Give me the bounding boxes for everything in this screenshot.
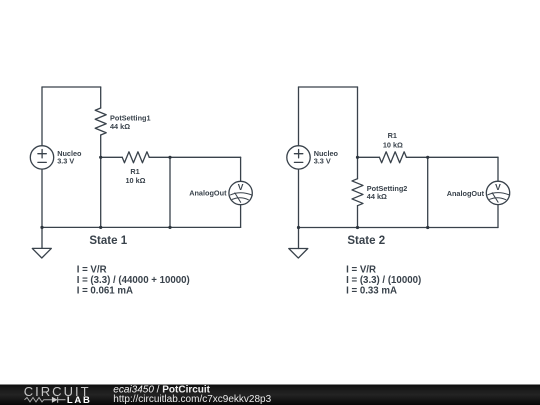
wire: voltmeter bottom lead (State 1) <box>240 205 242 228</box>
node: State2 ground junction <box>297 226 300 229</box>
wire: State2 left branch lower <box>298 169 300 227</box>
node: State1 bottom mid junction <box>99 226 102 229</box>
wire: State1 vertical return at x=170 <box>169 157 171 227</box>
voltmeter AnalogOut (State 1) <box>229 181 252 204</box>
wire: State1 left branch upper <box>41 87 43 146</box>
svg-text:http://circuitlab.com/c7xc9ekk: http://circuitlab.com/c7xc9ekkv28p3 <box>113 394 271 405</box>
svg-text:LAB: LAB <box>67 395 92 405</box>
svg-text:I = (3.3) / (44000 + 10000): I = (3.3) / (44000 + 10000) <box>77 275 190 286</box>
resistor PotSetting2 44 kOhm (vertical zigzag) <box>352 179 363 206</box>
wire: State2 top wire <box>299 86 358 88</box>
node: State1 mid junction <box>99 156 102 159</box>
wire: PotSetting2 upper lead <box>357 157 359 178</box>
wire: R1 left lead (State 2) <box>358 156 380 158</box>
wire: State2 left branch upper <box>298 87 300 146</box>
wire: State1 top wire <box>42 86 101 88</box>
ground symbol (State 2) <box>289 249 308 259</box>
wire: State2 vertical return at x=427.7 <box>427 157 429 227</box>
svg-text:V: V <box>238 182 244 192</box>
node: State1 bottom return junction <box>168 226 171 229</box>
logo resistor zigzag <box>25 398 52 402</box>
svg-text:10 kΩ: 10 kΩ <box>383 141 403 150</box>
ground symbol (State 1) <box>32 248 51 258</box>
svg-text:V: V <box>495 182 501 192</box>
wire: R1 right lead to voltmeter branch (State 2) <box>406 156 498 158</box>
node: State2 R1 output junction <box>426 156 429 159</box>
logo diode symbol <box>52 397 58 403</box>
wire: State2 bottom rail <box>299 227 499 229</box>
svg-text:AnalogOut: AnalogOut <box>447 189 485 198</box>
wire: PotSetting1 lower lead <box>100 135 102 157</box>
svg-text:I = (3.3) / (10000): I = (3.3) / (10000) <box>346 275 421 286</box>
wire: State2 right branch from top to mid node <box>357 87 359 157</box>
wire: State1 mid branch down to bottom <box>100 157 102 227</box>
svg-text:3.3 V: 3.3 V <box>57 156 74 165</box>
svg-text:I = 0.33 mA: I = 0.33 mA <box>346 285 397 296</box>
wire: ground stub (State 1) <box>41 227 43 248</box>
voltage source V2 Nucleo 3.3 V (State 2) <box>287 146 310 169</box>
footer bar <box>0 385 540 405</box>
wire: State1 bottom rail <box>42 226 241 228</box>
resistor PotSetting1 44 kOhm (vertical zigzag) <box>95 108 106 135</box>
svg-text:AnalogOut: AnalogOut <box>189 189 227 198</box>
node: State2 mid junction <box>356 156 359 159</box>
wire: ground stub (State 2) <box>298 228 300 249</box>
svg-text:44 kΩ: 44 kΩ <box>110 122 130 131</box>
svg-text:State 1: State 1 <box>89 235 127 247</box>
svg-text:I = V/R: I = V/R <box>346 265 376 276</box>
svg-text:I = V/R: I = V/R <box>77 265 107 276</box>
wire: State1 left branch lower <box>41 169 43 227</box>
node: State2 bottom return junction <box>426 226 429 229</box>
wire: voltmeter top lead (State 2) <box>497 157 499 181</box>
resistor R1 10 kOhm (horizontal zigzag, State 2) <box>379 152 406 163</box>
node: State1 ground junction <box>40 226 43 229</box>
wire: R1 left lead <box>101 156 123 158</box>
node: State2 bottom mid junction <box>356 226 359 229</box>
svg-text:44 kΩ: 44 kΩ <box>367 192 387 201</box>
wire: R1 right lead to voltmeter branch <box>149 156 240 158</box>
svg-text:State 2: State 2 <box>347 235 385 247</box>
wire: voltmeter bottom lead (State 2) <box>497 205 499 228</box>
svg-text:I = 0.061 mA: I = 0.061 mA <box>77 285 133 296</box>
svg-text:R1: R1 <box>388 131 397 140</box>
voltage source V1 Nucleo 3.3 V (State 1) <box>30 146 53 169</box>
resistor R1 10 kOhm (horizontal zigzag, State 1) <box>122 152 149 163</box>
wire: voltmeter top lead (State 1) <box>240 157 242 181</box>
wire: PotSetting2 lower lead <box>357 206 359 228</box>
svg-text:R1: R1 <box>130 167 139 176</box>
node: State1 R1 output junction <box>168 156 171 159</box>
svg-text:10 kΩ: 10 kΩ <box>125 176 145 185</box>
voltmeter AnalogOut (State 2) <box>486 181 509 204</box>
svg-text:3.3 V: 3.3 V <box>314 156 331 165</box>
wire: State1 right branch upper <box>100 87 102 108</box>
